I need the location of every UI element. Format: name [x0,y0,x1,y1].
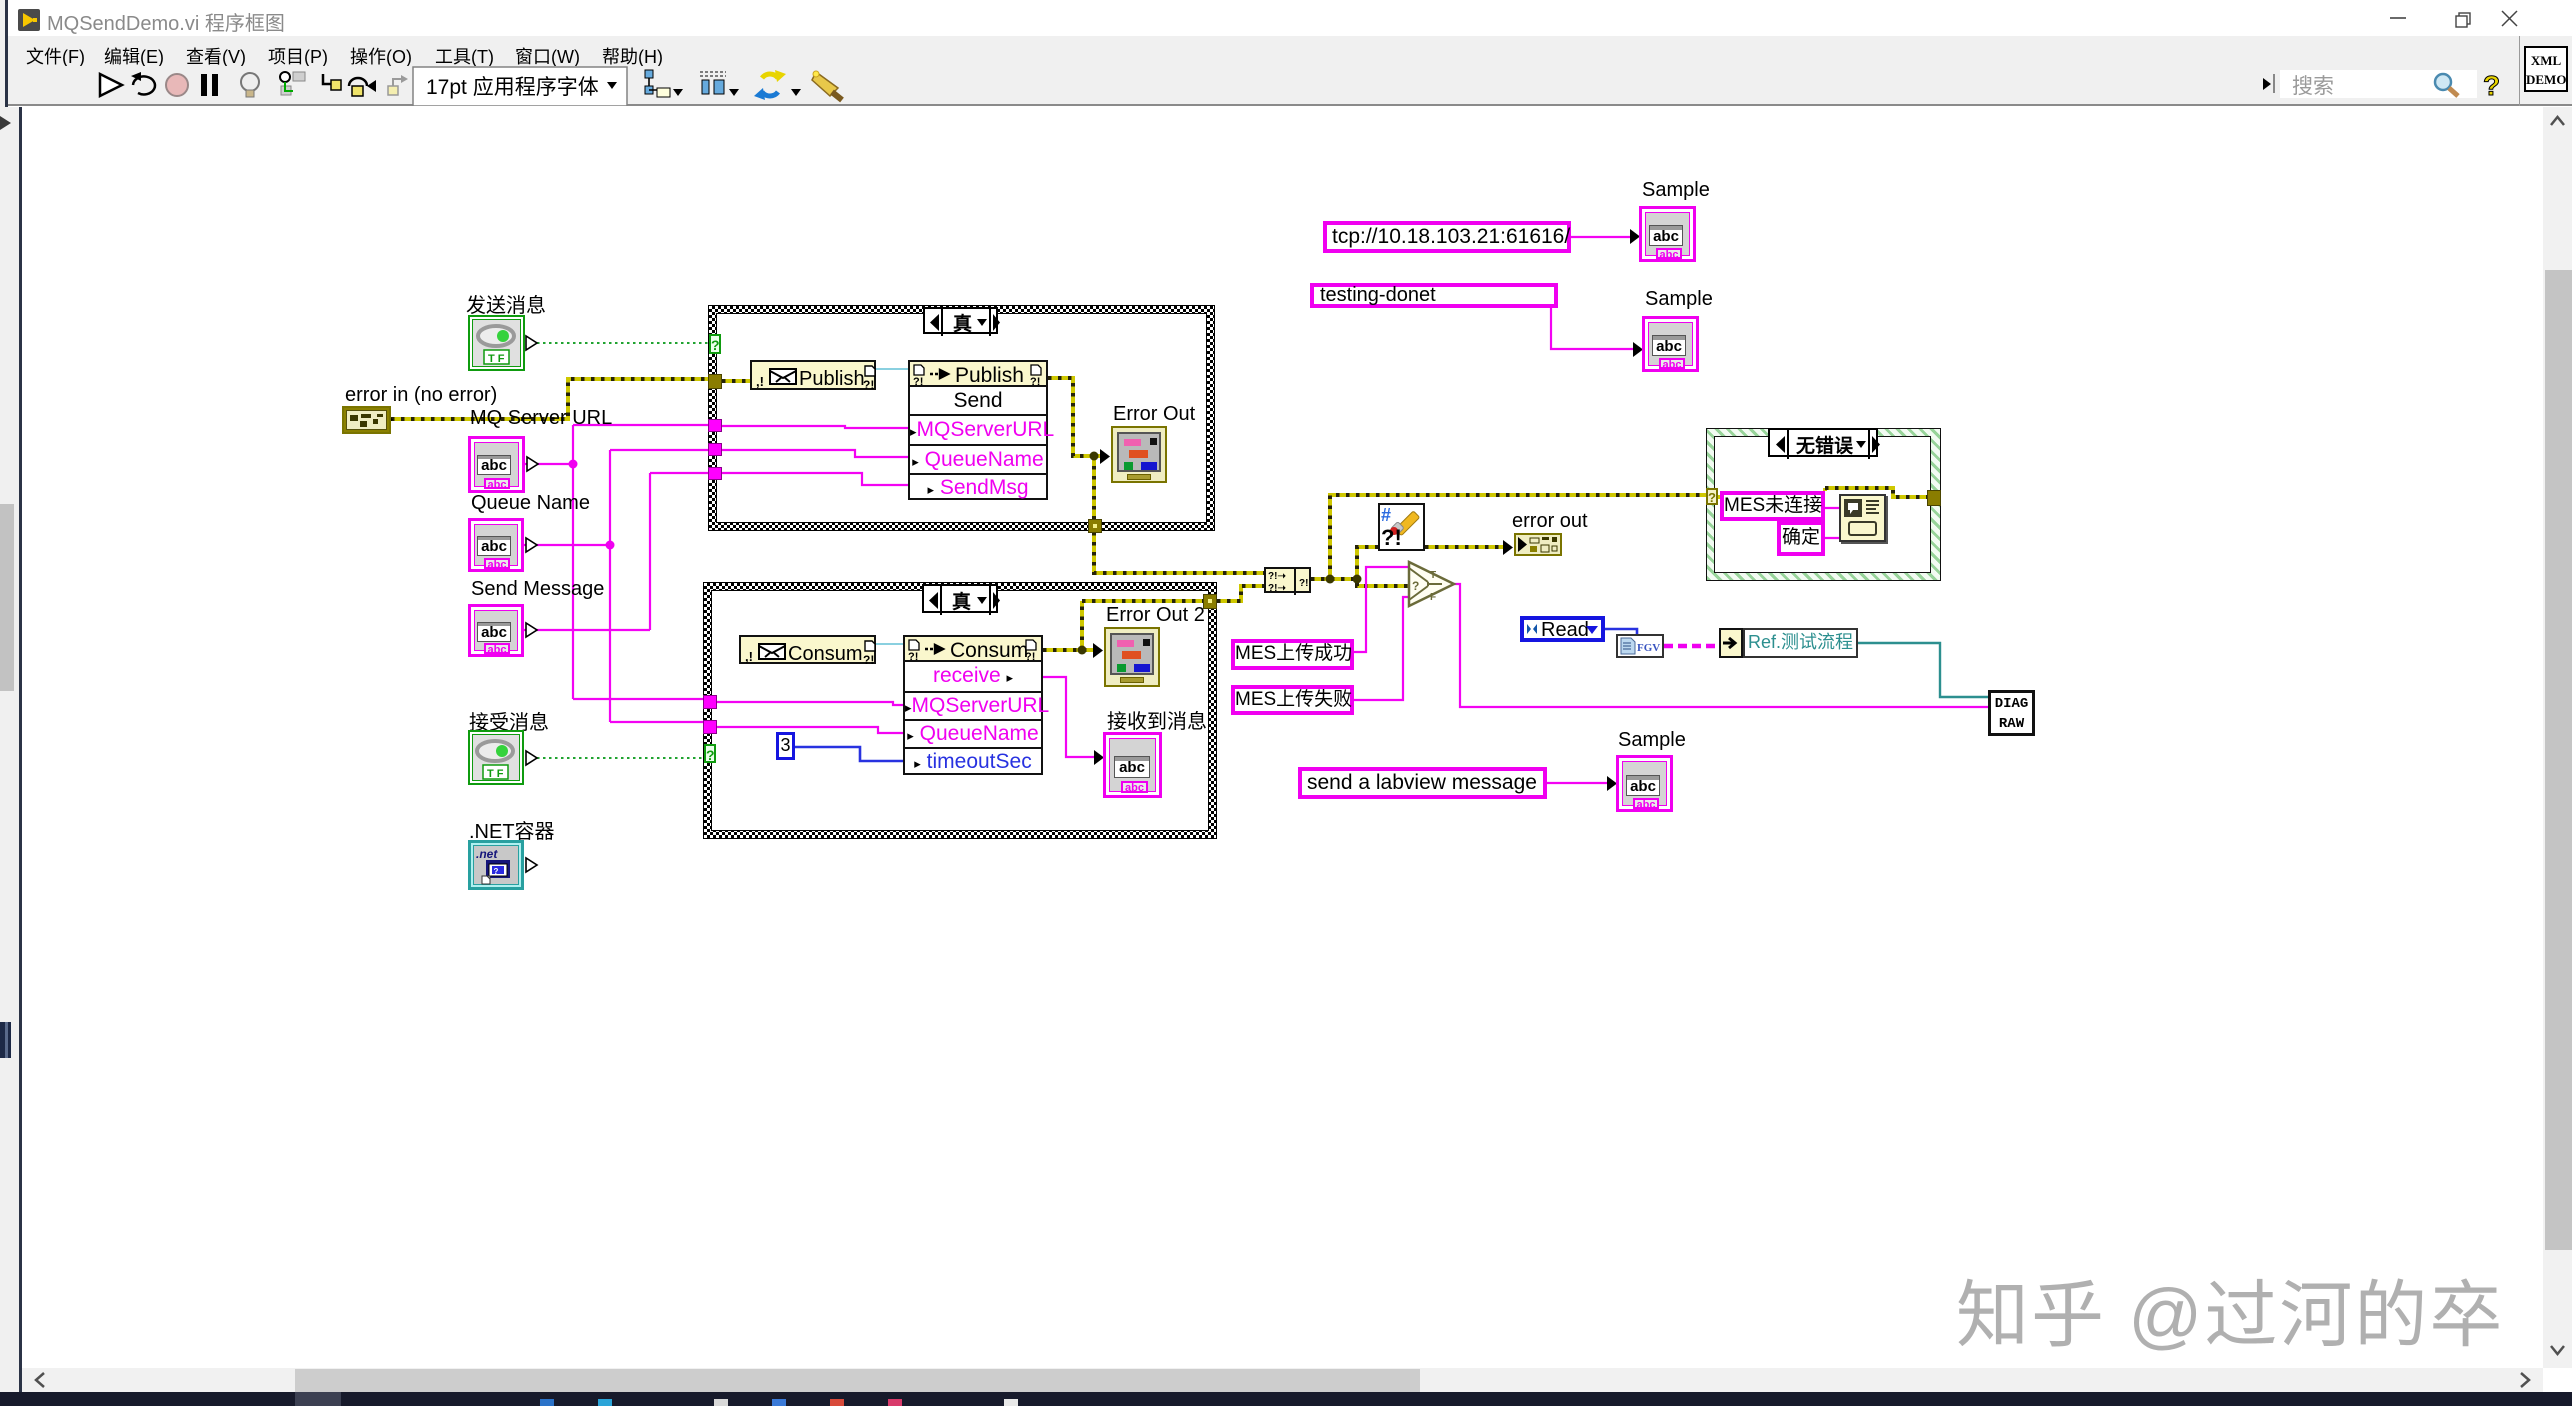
run continuous [133,76,155,94]
min / max / close [2380,0,2540,36]
svg-text:#: # [1381,505,1391,525]
MES上传失败 constant [1231,685,1354,715]
error out indicator [1514,533,1562,556]
wire Publish invoke error out [1048,378,1102,456]
FGV vi icon [1616,634,1664,658]
string control MQ Server URL [468,436,525,493]
Publish invoke node [908,360,1048,500]
magenta tunnel QueueName [708,443,722,456]
boolean control 发送消息 [468,315,525,371]
label Sample 1 [1642,179,1710,202]
left strip (window behind) [0,0,5,107]
label error in [345,384,497,407]
label 发送消息 [466,289,546,318]
wire stubs dialog [1825,508,1839,538]
label Error Out [1113,403,1195,426]
wire MES upload fail [1354,597,1410,700]
magenta tunnel lower MQServerURL [703,695,717,709]
align dropdown [645,70,653,78]
wire FGV dashed ref [1664,644,1719,649]
select node [1406,558,1458,610]
DIAG RAW subvi [1988,690,2035,736]
distribute dropdown [700,72,726,76]
svg-text:?!➝: ?!➝ [1268,583,1286,594]
label Sample 3 [1618,729,1686,752]
wire lower case right tunnel to merge node [1217,586,1264,601]
stop [166,74,188,96]
case structure no-error (green) [1706,428,1941,581]
step out [388,86,398,95]
svg-text:?!: ?! [908,651,918,662]
canvas corner artifact [0,112,14,136]
olive tunnel no-error right [1927,490,1941,506]
svg-text:?!: ?! [1299,578,1308,589]
.NET container [468,840,524,890]
numeric constant 3 [776,732,795,760]
svg-text:真: 真 [953,312,972,335]
wire .NET refnum publish [876,368,908,370]
wire boolean receive [537,757,704,759]
label MQ Server URL [470,407,612,430]
MES上传成功 constant [1231,639,1354,670]
title bar [0,0,2572,36]
case selector 真 (lower) [922,584,998,613]
LabVIEW app icon [18,9,40,31]
Sample indicator 3 [1616,755,1673,812]
Sample indicator 2 [1642,316,1699,372]
svg-text:?!: ?! [1025,651,1035,662]
Error Out 2 indicator [1104,627,1160,687]
label error out [1512,510,1588,533]
testing-donet constant [1310,283,1558,308]
wire inside no-error case [1718,488,1927,497]
svg-text:无错误: 无错误 [1796,434,1854,457]
MES未连接 constant [1720,491,1825,521]
olive tunnel upper-bottom [1088,519,1102,533]
clear errors VI #?! [1378,503,1425,551]
resize dropdown [762,74,778,78]
case structure lower (true frame) [703,582,1217,839]
确定 constant [1777,521,1825,556]
svg-text:T: T [1430,570,1436,581]
svg-text:?!: ?! [1381,525,1402,549]
open vi ref node [1719,628,1743,658]
Ref.测试流程 label box [1743,628,1858,658]
wire receive output [1043,677,1096,757]
wire send-a-labview-message to Sample [1547,782,1609,784]
error in cluster [342,406,391,434]
menu bar [0,36,2572,66]
toolbar right: search + help [2255,66,2525,106]
olive tunnel lower-right [1203,594,1217,609]
magenta tunnel MQServerURL [708,419,722,432]
string control Queue Name [468,518,524,572]
接收到消息 indicator [1103,732,1162,798]
label 接收到消息 [1107,705,1207,734]
svg-text:,!: ,! [756,374,764,389]
merge errors node [1264,567,1311,593]
case selector 真 [923,307,998,334]
svg-text:?: ? [494,867,499,876]
output arrows of controls [526,336,538,872]
input arrows of indicators [384,229,1643,791]
svg-text:F: F [1430,592,1436,603]
svg-text:Read: Read [1541,620,1589,638]
svg-text:FGV: FGV [1637,642,1660,654]
Read ring constant [1520,616,1605,642]
label .NET容器 [469,815,555,844]
wire junction up to right tunnel of lower case [1078,601,1204,655]
wire Queue Name [524,450,708,722]
case structure upper (true frame) [708,305,1215,531]
wire error-in to upper case tunnel [391,379,708,419]
svg-text:17pt 应用程序字体: 17pt 应用程序字体 [426,76,599,99]
label Error Out 2 [1106,604,1205,627]
wire upper tunnel down to merge node [1094,532,1264,573]
step into [323,74,331,84]
bulb [241,73,259,91]
svg-text:T F: T F [487,768,504,780]
wire select output to DIAG RAW [1452,584,1988,707]
svg-text:?: ? [2483,70,2500,101]
svg-text:搜索: 搜索 [2292,75,2334,98]
wire testing-donet to Sample [1551,308,1635,349]
wires tunnels to Publish invoke inputs [722,426,908,485]
olive tunnel upper-left [708,374,722,389]
label Queue Name [471,492,590,515]
wire long error to no-error case [1326,495,1707,584]
pause [201,74,207,96]
taskbar sliver [0,1392,2572,1406]
svg-text:Publish: Publish [955,364,1024,387]
svg-text:.net: .net [476,847,498,861]
right scrollbar [2543,107,2572,1368]
font box [413,67,627,106]
wire tcp constant to Sample [1571,236,1632,238]
case ? terminal [709,334,721,354]
label Send Message [471,578,604,601]
svg-text:Publish: Publish [799,368,865,390]
case ? terminal no-error [1706,488,1718,505]
svg-text:Consum: Consum [788,643,862,665]
svg-text:?: ? [1412,579,1419,593]
case ? terminal lower [704,744,716,763]
cleanup [812,72,838,96]
horizontal scrollbar [22,1368,2543,1392]
svg-text:?!: ?! [1030,376,1040,387]
watermark [1956,1256,2504,1362]
probe icon [280,72,290,82]
label Sample 2 [1645,288,1713,311]
tcp constant [1323,221,1571,253]
wire tunnel to Publish constant [722,379,750,383]
wire Consum invoke error out [1043,648,1095,652]
wire Read to FGV [1605,629,1637,634]
magenta tunnel SendMsg [708,467,722,480]
wire .NET refnum consum [876,643,903,645]
wire merge node output to select [1311,579,1410,586]
Publish constant [750,360,876,390]
svg-text:,!: ,! [745,649,753,664]
wire MQ Server URL [525,425,708,699]
svg-text:?!: ?! [913,376,923,387]
step over [349,78,367,86]
send a labview message constant [1298,767,1547,799]
Sample indicator 1 [1639,206,1696,262]
svg-text:?!: ?! [863,653,874,666]
Consum constant [739,635,876,664]
case selector 无错误 [1768,428,1878,457]
one button dialog vi [1839,494,1886,542]
wire to clear-errors and error out [1353,547,1506,584]
svg-text:?!: ?! [863,378,874,392]
wire boolean send [537,342,709,344]
vertical separator + XML DEMO icon [2519,36,2520,106]
boolean control 接受消息 [468,730,524,785]
wire Send Message [524,473,708,630]
magenta tunnel lower QueueName [703,720,717,734]
svg-text:真: 真 [952,590,971,613]
svg-text:T F: T F [488,353,505,365]
svg-text:?!➝: ?!➝ [1268,571,1286,582]
wire timeout 3 [795,747,903,761]
Error Out indicator [1111,426,1167,483]
svg-text:Consum: Consum [950,639,1028,662]
label 接受消息 [469,706,549,735]
wires tunnels to Consum invoke inputs [717,702,903,733]
wire VI ref teal [1858,643,1988,697]
wire junction down to bottom tunnel [1090,452,1099,521]
string control Send Message [468,604,524,657]
wire MES upload ok [1354,567,1410,652]
toolbar [0,66,2572,106]
run arrow [100,74,122,96]
Consum invoke node [903,635,1043,775]
